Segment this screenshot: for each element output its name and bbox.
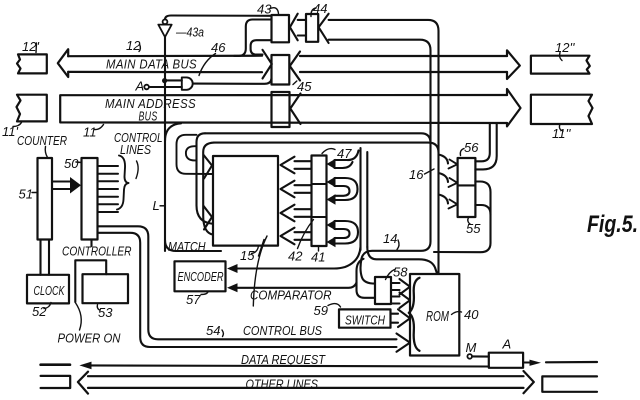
label 53 tick — [97, 305, 99, 311]
node M circle — [467, 354, 472, 359]
main data bus right portion edges after block 45 — [290, 52, 300, 81]
wire trunk to encoder line1 — [232, 247, 361, 269]
wire 44 to right trunk T2 into ROM top — [329, 20, 439, 274]
svg-text:42: 42 — [288, 249, 303, 264]
svg-text:CONTROL BUS: CONTROL BUS — [243, 324, 323, 338]
label 57 leader curl — [201, 292, 208, 295]
svg-text:51: 51 — [19, 187, 33, 202]
label 12 tick — [139, 44, 140, 52]
wire 55 right joining down line — [475, 205, 490, 215]
arrow 41 to 15 row2 — [281, 181, 312, 198]
hook arrow trunk into 56 row2 — [439, 173, 449, 182]
MATCH enclosure top corner merging into address bus bottom — [165, 123, 181, 141]
chevron arrow on pair upper — [204, 155, 212, 179]
arrowhead into encoder lower — [227, 283, 238, 292]
svg-text:A: A — [135, 79, 145, 94]
wire weave into 58 lower input — [357, 259, 376, 298]
inverter 43a — [163, 19, 168, 24]
label 54 tick — [222, 330, 223, 337]
broken line right of A — [546, 361, 597, 363]
arrowhead A output — [530, 360, 542, 366]
svg-text:52: 52 — [32, 304, 47, 319]
label 45 leader — [293, 81, 297, 85]
label 42 leader — [298, 220, 314, 249]
label 40 dash — [452, 312, 462, 315]
label 12'' leader — [560, 53, 562, 61]
other lines band bottom edge — [88, 387, 524, 389]
hook hairpin arrow into 41 row4-row5 — [335, 221, 359, 244]
svg-text:MAIN DATA BUS: MAIN DATA BUS — [106, 57, 197, 72]
svg-text:DATA REQUEST: DATA REQUEST — [241, 353, 326, 367]
bus pair line L1 — [205, 133, 431, 143]
svg-text:OTHER LINES: OTHER LINES — [246, 378, 319, 392]
label 52 leader curl — [44, 303, 51, 309]
encoder block 57 — [175, 261, 226, 291]
svg-text:12: 12 — [126, 38, 141, 53]
svg-text:Fig.5.: Fig.5. — [587, 211, 638, 238]
arrow 41 to 15 row4 — [281, 228, 312, 245]
arrow 41 to 15 row3 — [281, 205, 312, 222]
column divider 2 — [312, 216, 327, 218]
label 56 leader curl — [460, 149, 464, 156]
wire 56 right to address bus tap inner — [475, 124, 496, 169]
block 53 — [83, 274, 129, 303]
box 15 associative memory — [213, 156, 278, 246]
svg-text:COMPARATOR: COMPARATOR — [250, 289, 332, 303]
broken stub other lines left — [41, 376, 71, 388]
label 55 leader — [468, 218, 470, 225]
arrowhead control bus into ROM — [397, 334, 411, 352]
control bus pair from controller — [98, 226, 397, 339]
block 56 55 — [458, 158, 476, 217]
arrowhead between 43 and 44 — [290, 14, 298, 41]
svg-text:CONTROLLER: CONTROLLER — [62, 245, 132, 259]
svg-text:LINES: LINES — [120, 143, 152, 157]
other lines left open arrowhead — [78, 372, 88, 394]
svg-text:11'': 11'' — [552, 126, 571, 141]
switch block 59 — [339, 309, 391, 327]
block arrow from 51 to 50 — [52, 182, 70, 190]
bus segment 12'' — [531, 56, 590, 74]
svg-text:—43a: —43a — [175, 25, 204, 40]
wire trunk right line bending to ROM top — [367, 247, 437, 274]
wire controller to box 53 and power-on line — [75, 260, 106, 302]
label 58 leader curl — [386, 270, 395, 280]
wire legs 51 to clock — [41, 240, 50, 275]
label L dash — [160, 205, 166, 207]
svg-text:L: L — [153, 198, 160, 213]
chevron arrow on pair lower — [204, 206, 212, 230]
wire 44 to right trunk T1 then left and weave into 58 upper input — [329, 40, 431, 284]
svg-text:15: 15 — [240, 248, 255, 263]
svg-text:CLOCK: CLOCK — [34, 284, 65, 298]
control lines brace — [117, 156, 129, 210]
wire vertical from inverter through buses to MATCH left edge — [164, 37, 166, 251]
svg-text:ENCODER: ENCODER — [178, 270, 224, 284]
controller block 50 — [82, 158, 98, 240]
arrowhead data request left — [79, 362, 91, 370]
node A input circle — [144, 85, 149, 90]
arrow switch to ROM — [391, 309, 411, 327]
node junction dot at gate input — [162, 78, 167, 83]
main data bus left arrowhead — [58, 49, 68, 77]
label 11' leader — [13, 123, 22, 127]
label 16 dash — [425, 169, 435, 174]
hairpin capsule on pair — [177, 135, 214, 174]
svg-text:SWITCH: SWITCH — [345, 314, 386, 328]
wire elbow from block 43 lower-left to arrow into block 45 — [251, 40, 272, 54]
wire A output — [523, 361, 529, 363]
svg-text:55: 55 — [466, 221, 481, 236]
bus pair line L2 — [214, 143, 439, 153]
svg-text:50: 50 — [64, 156, 79, 171]
wire stub from 50 bottom — [90, 240, 92, 247]
svg-text:14: 14 — [383, 231, 397, 246]
hook hairpin arrow into 41 row2-row3 — [335, 178, 358, 200]
svg-text:58: 58 — [393, 265, 408, 280]
bus segment 11' — [17, 95, 47, 122]
label POWER ON leader — [75, 303, 81, 331]
ROM block 40 — [410, 274, 459, 356]
broken stub other lines right — [542, 376, 597, 391]
svg-text:44: 44 — [313, 1, 327, 16]
svg-text:POWER ON: POWER ON — [58, 332, 122, 346]
block on address bus below 45 — [272, 92, 290, 127]
svg-text:12': 12' — [22, 39, 39, 54]
divider between 56 and 55 — [458, 184, 476, 186]
svg-text:12'': 12'' — [555, 40, 575, 55]
label 15 second slash — [259, 240, 265, 257]
control lines comb — [98, 166, 119, 212]
hook arrow into 41 row1 — [335, 151, 359, 169]
svg-text:MATCH: MATCH — [168, 240, 206, 254]
svg-text:40: 40 — [464, 307, 479, 322]
label COMPARATOR long leader — [253, 236, 267, 306]
arrow 41 to 15 row1 — [281, 157, 312, 174]
svg-text:47: 47 — [337, 146, 352, 161]
block 45 on data bus — [272, 55, 290, 85]
arrow 58 to ROM upper — [391, 279, 410, 295]
main data bus top edge — [68, 55, 262, 58]
label 41 tick — [318, 247, 320, 252]
bus pair line L1 left bend into vertical — [197, 133, 214, 224]
clock block 52 — [27, 275, 69, 304]
main data bus bottom edge — [68, 71, 262, 73]
svg-text:16: 16 — [409, 167, 424, 182]
bus segment 12' — [17, 54, 47, 73]
label 15 leader curl — [252, 246, 259, 254]
arrowhead into block 45 left edge — [263, 50, 272, 79]
brace inside ROM — [409, 278, 420, 351]
svg-text:46: 46 — [211, 40, 226, 55]
svg-text:53: 53 — [98, 305, 113, 320]
svg-text:ROM: ROM — [426, 309, 450, 325]
svg-text:A: A — [502, 337, 512, 352]
arrowhead into encoder upper — [227, 264, 238, 273]
bus segment 11'' — [531, 95, 593, 124]
label 46 leader — [199, 54, 216, 76]
wire 56 right to address bus tap outer — [475, 124, 489, 161]
label 11'' leader — [559, 124, 563, 131]
label 50 tick — [76, 161, 82, 164]
and-gate 46 — [182, 77, 193, 89]
wire encoder line2 — [232, 283, 357, 288]
other lines band top edge — [88, 375, 524, 377]
svg-text:43: 43 — [257, 2, 272, 17]
bus pair line L2 left bend into vertical — [203, 143, 214, 235]
label 11 leader curl — [95, 125, 104, 130]
arrowhead right of 44 — [319, 14, 329, 43]
label 44 leader — [311, 8, 316, 17]
svg-text:BUS: BUS — [139, 109, 158, 124]
wire top line from inverter 43a to block 43 — [165, 16, 272, 20]
main address bus outline with flat left end — [60, 95, 507, 123]
arrow 58 to ROM lower — [391, 293, 410, 309]
label COUNTER leader — [45, 147, 47, 158]
label 43 leader curl — [270, 8, 279, 14]
column divider 1 — [312, 183, 327, 185]
label 14 tick — [397, 240, 399, 250]
trunk pair right of column — [361, 148, 368, 250]
main address bus right arrowhead — [507, 89, 521, 126]
wire gate 46 output to block 45 lower-left — [194, 79, 272, 84]
svg-text:45: 45 — [297, 79, 312, 94]
wire elbow from block 43 left edge down to data bus top edge — [234, 20, 272, 56]
broken stub data request left — [41, 363, 70, 366]
block 43 — [272, 15, 290, 42]
arrowhead right of address block — [290, 94, 300, 125]
svg-text:59: 59 — [314, 303, 328, 318]
svg-text:54: 54 — [206, 323, 220, 338]
svg-text:11: 11 — [83, 125, 97, 140]
svg-text:COUNTER: COUNTER — [17, 134, 67, 148]
c-curl inside capsule — [186, 146, 196, 160]
wire junction to gate 46 upper input — [165, 79, 182, 81]
wire 56 right middle down to line 14 — [434, 182, 491, 253]
label CONTROL LINES leader — [136, 161, 138, 179]
comparator column 41/42 — [312, 156, 327, 247]
label 59 leader — [328, 304, 341, 307]
MATCH enclosure bottom edge — [165, 240, 221, 251]
main data bus right arrowhead — [507, 50, 520, 79]
svg-text:57: 57 — [186, 292, 201, 307]
other lines right open arrowhead — [524, 371, 534, 393]
svg-text:M: M — [466, 340, 477, 355]
label 51 dash — [32, 192, 38, 194]
hook arrow trunk into 56 row1 — [439, 155, 449, 164]
wire data request line — [85, 365, 489, 366]
label 12' tick — [35, 43, 38, 53]
wire A to gate 46 — [149, 86, 182, 88]
box A — [489, 353, 523, 368]
counter block 51 — [38, 158, 53, 240]
block 44 — [306, 14, 318, 42]
svg-text:41: 41 — [311, 250, 325, 265]
svg-text:56: 56 — [464, 140, 479, 155]
label 47 leader — [322, 149, 335, 154]
block 58 — [375, 277, 391, 304]
hook arrow trunk into 55 row3 — [439, 195, 449, 204]
wire M to box A — [472, 355, 489, 357]
